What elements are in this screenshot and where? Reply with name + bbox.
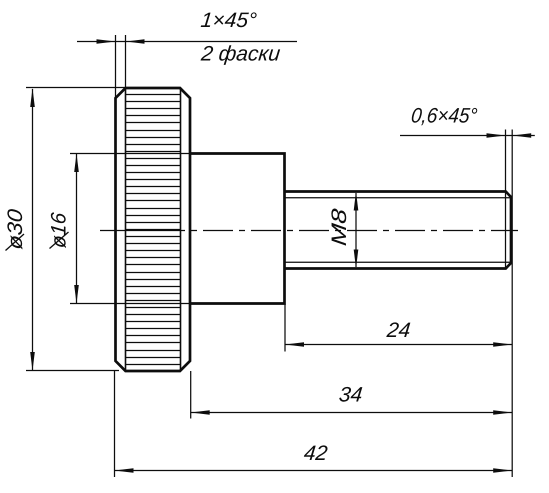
svg-text:2 фаски: 2 фаски xyxy=(199,43,281,66)
svg-text:0,6×45°: 0,6×45° xyxy=(410,105,478,128)
svg-text:24: 24 xyxy=(385,319,412,342)
svg-text:ø16: ø16 xyxy=(48,211,71,249)
svg-text:M8: M8 xyxy=(328,207,351,247)
svg-text:34: 34 xyxy=(338,384,364,407)
svg-text:ø30: ø30 xyxy=(4,208,27,251)
svg-text:1×45°: 1×45° xyxy=(200,9,258,32)
svg-text:42: 42 xyxy=(303,442,329,465)
